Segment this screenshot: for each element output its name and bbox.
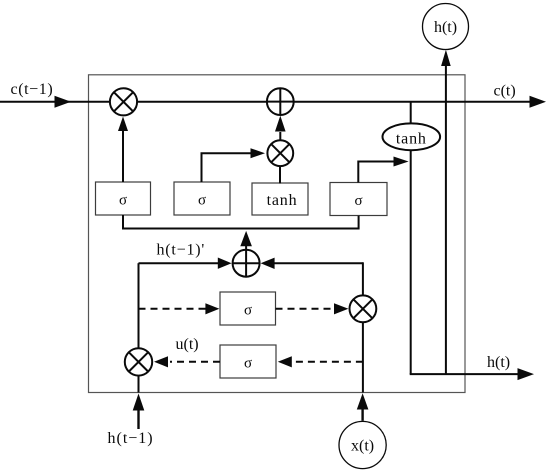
dashed wire row2 left segment [139, 308, 208, 310]
wire input product up to add node [279, 132, 281, 140]
arrowhead into add node [275, 116, 286, 132]
wire right vertical upper segment [362, 262, 364, 295]
arrowhead into forget product [118, 117, 128, 132]
arrowhead h(t) output [518, 368, 535, 380]
svg-text:σ: σ [244, 303, 252, 319]
input circle x(t) [339, 421, 386, 468]
gate box sigma 4 (output) [330, 183, 387, 216]
gate box sigma row2 [220, 292, 276, 325]
wire below left product to boundary [138, 376, 140, 393]
arrowhead left branch [218, 258, 232, 269]
gate box sigma 2 (input) [174, 182, 230, 215]
wire right vertical lower segment [362, 322, 364, 393]
svg-text:σ: σ [198, 193, 206, 209]
arrowhead toward tanh output line [394, 157, 409, 167]
arrowhead into right product [334, 303, 348, 314]
svg-text:h(t): h(t) [434, 19, 457, 36]
svg-text:σ: σ [119, 193, 127, 209]
arrowhead into h(t) circle [441, 50, 451, 66]
state circle h(t) top [423, 4, 469, 50]
wire tanh box up to input product [279, 166, 281, 184]
arrowhead into left product (points left) [154, 356, 168, 367]
svg-text:x(t): x(t) [351, 438, 374, 455]
gate box tanh candidate [252, 183, 308, 215]
wire sigma4 elbow to tanh output line [358, 162, 395, 183]
svg-text:tanh: tanh [396, 131, 427, 148]
multiply node: forget gate product [110, 88, 137, 115]
svg-text:c(t): c(t) [494, 83, 516, 100]
dashed wire row3 right segment [291, 361, 363, 363]
tanh ellipse activation [383, 123, 441, 150]
svg-text:σ: σ [244, 356, 252, 372]
gate box sigma 1 (forget) [96, 182, 151, 215]
svg-text:u(t): u(t) [176, 336, 199, 353]
arrowhead x(t) input [357, 393, 369, 409]
add node on cell line [267, 88, 294, 115]
wire h(t) output horizontal [410, 373, 519, 375]
wire from lower add node up to bus [245, 244, 247, 250]
svg-text:tanh: tanh [267, 192, 298, 209]
multiply node: input gate product [267, 140, 293, 166]
wire branch from c-line down to tanh [410, 102, 412, 124]
wire x(t) up [361, 409, 363, 421]
wire left branch into lower add node [139, 262, 221, 264]
arrowhead into input product left [251, 148, 266, 158]
arrowhead into sigma row2 [205, 303, 219, 314]
wire c(t) output segment [294, 101, 531, 103]
wire c(t-1) input segment [0, 101, 110, 103]
svg-text:c(t−1): c(t−1) [11, 81, 54, 98]
add node h(t-1)' [233, 250, 260, 277]
wire sigma2 elbow to input product [202, 153, 254, 182]
arrowhead h(t-1) input [133, 394, 145, 411]
arrowhead c(t) output [530, 96, 547, 108]
arrowhead right branch (points left) [261, 258, 275, 269]
dashed wire row3 left segment [170, 361, 220, 363]
wire c-line between forget product and add node [137, 101, 267, 103]
wire tanh output down [410, 150, 412, 374]
arrowhead on c(t-1) input [55, 96, 72, 108]
wire vertical up to h(t) circle [445, 64, 447, 374]
outer cell boundary box [89, 75, 466, 393]
wire sigma1 up to forget product [122, 128, 124, 182]
svg-text:h(t−1): h(t−1) [108, 430, 154, 447]
multiply node right (reset product) [350, 295, 377, 322]
multiply node left (h(t-1) product) [125, 348, 152, 375]
gate box sigma row3 [220, 345, 276, 378]
dashed wire row2 right segment [276, 308, 336, 310]
wire right branch into lower add node [274, 262, 363, 264]
arrowhead into sigma row3 (points left) [278, 356, 292, 367]
wire left vertical h(t-1)' path [138, 263, 140, 348]
bus wire under gate boxes [123, 215, 359, 229]
input h(t-1) arrow line [137, 410, 139, 430]
svg-text:h(t−1)': h(t−1)' [157, 242, 206, 259]
arrowhead into bus [240, 231, 252, 246]
svg-text:σ: σ [354, 193, 362, 209]
svg-text:h(t): h(t) [487, 354, 510, 371]
